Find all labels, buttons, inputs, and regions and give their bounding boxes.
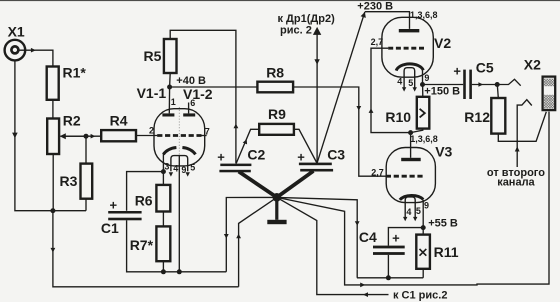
wire R12 bottom to X2 sleeve bbox=[498, 112, 546, 142]
svg-text:канала: канала bbox=[497, 177, 535, 189]
svg-text:R12: R12 bbox=[464, 109, 490, 125]
wire wiper node to R4 bbox=[61, 135, 102, 137]
svg-text:+150 В: +150 В bbox=[424, 85, 460, 97]
resistor R1 bbox=[47, 67, 59, 100]
wire cathode node to C1 bbox=[127, 172, 164, 211]
tube V1-1 anode plate pin 1 bbox=[162, 113, 174, 116]
wire output node to R12 bbox=[497, 85, 498, 99]
junction node V1 cathode bbox=[161, 169, 166, 174]
svg-text:1,3,6,8: 1,3,6,8 bbox=[410, 10, 438, 20]
svg-text:5: 5 bbox=[416, 206, 421, 216]
svg-text:2,7: 2,7 bbox=[371, 37, 384, 47]
svg-text:X2: X2 bbox=[524, 57, 541, 73]
wire output node to X2 tip contact bbox=[497, 79, 521, 85]
resistor R7 bbox=[156, 226, 170, 261]
svg-text:4: 4 bbox=[173, 164, 178, 174]
wire R2 bottom to ground bus bbox=[52, 154, 54, 211]
jack X2 hatched tip segment bbox=[544, 79, 554, 87]
tube V3 envelope bbox=[386, 148, 435, 203]
junction node X1 shield / R2 bus bbox=[50, 208, 55, 213]
capacitor C1 plates bbox=[108, 211, 141, 214]
jack X2 hatched sleeve segment bbox=[544, 102, 554, 109]
svg-text:C1: C1 bbox=[101, 220, 119, 236]
wire V2 grid to V3 anode node bbox=[371, 48, 411, 132]
wire R7 bottom to gnd bus bbox=[162, 261, 164, 272]
wire R5 bottom to +40V node bbox=[169, 73, 172, 87]
junction node +40V bbox=[167, 85, 172, 90]
tube V2 heater bbox=[404, 68, 415, 89]
tube V3 cathode arc bbox=[400, 195, 424, 199]
svg-text:+: + bbox=[297, 149, 305, 164]
tube V2 envelope bbox=[382, 17, 433, 77]
tube V1 heater bbox=[171, 156, 188, 172]
svg-text:R1*: R1* bbox=[63, 65, 87, 81]
wire star node to X2 sleeve bus bbox=[277, 112, 549, 285]
wire C3 top to +230V rail bbox=[317, 12, 365, 164]
svg-text:6: 6 bbox=[190, 98, 195, 108]
resistor R11 bbox=[416, 235, 430, 269]
svg-text:C3: C3 bbox=[327, 146, 345, 162]
svg-text:9: 9 bbox=[424, 200, 429, 210]
wire from second channel to X2 ring contact bbox=[517, 100, 532, 167]
tube V1 envelope bbox=[154, 109, 205, 166]
wire R8 to V3 grid bbox=[293, 87, 386, 176]
junction node +55V bbox=[421, 225, 426, 230]
thick lead C3 to star node bbox=[277, 171, 314, 197]
wire +230V rail to V2 anode bbox=[365, 12, 410, 29]
wire R6 to R7 bbox=[162, 212, 164, 227]
connector X1 inner pin bbox=[11, 46, 18, 53]
V3 heater arrow pin 4 bbox=[403, 217, 407, 221]
resistor R6 bbox=[156, 185, 170, 212]
wire V2 cathode pin 9 to +150V node bbox=[422, 70, 424, 85]
wire +150V node to C5 bbox=[423, 84, 464, 86]
tube V3 heater bbox=[405, 197, 415, 218]
svg-text:R9: R9 bbox=[268, 106, 286, 122]
junction node R7 gnd bbox=[161, 269, 166, 274]
tube V1 cathode left arc bbox=[163, 148, 176, 155]
wire R11 bottom to output gnd bus bbox=[422, 269, 424, 278]
wire X1 pin to R1 top bbox=[18, 50, 53, 66]
wire V1 heater centre tap pin 9 bbox=[178, 156, 180, 272]
svg-text:1,3,6,8: 1,3,6,8 bbox=[410, 134, 438, 144]
wire V3 anode node to plate bbox=[410, 133, 412, 158]
svg-text:+: + bbox=[217, 149, 225, 164]
wire R2 wiper node down to R3 bbox=[85, 136, 87, 163]
svg-text:R7*: R7* bbox=[130, 237, 154, 253]
V2 heater arrow pin 4 bbox=[402, 87, 406, 91]
direction arrow to choke Dr1 (up) bbox=[313, 27, 321, 35]
V3 heater arrow pin 5 bbox=[413, 217, 417, 221]
direction arrow star to C4 bus drop bbox=[355, 221, 360, 226]
direction arrow R8 drop to V3 grid bbox=[356, 106, 361, 111]
R10 power mark V (5W) bbox=[420, 109, 425, 118]
junction node R2 wiper bbox=[84, 134, 89, 139]
svg-text:R6: R6 bbox=[135, 192, 153, 208]
svg-text:1: 1 bbox=[171, 97, 176, 107]
tube V1 grid (dashed) bbox=[157, 134, 201, 137]
resistor R2 (potentiometer body) bbox=[47, 119, 59, 155]
resistor R3 bbox=[81, 164, 93, 199]
wire +150V node to R10 bbox=[422, 85, 424, 97]
svg-text:2: 2 bbox=[149, 126, 154, 136]
svg-text:R11: R11 bbox=[434, 244, 459, 260]
wire V1 cathode pin 3 to node bbox=[162, 154, 164, 172]
svg-text:R10: R10 bbox=[385, 109, 411, 125]
junction node output bbox=[495, 82, 500, 87]
svg-text:9: 9 bbox=[424, 73, 429, 83]
wire R9 right to C3 top bbox=[294, 129, 317, 163]
direction arrow to C1 fig.2 (left) bbox=[363, 292, 368, 297]
wire R4 to V1 grid pin 2 bbox=[136, 135, 157, 137]
direction arrow on X1 wire bbox=[31, 48, 36, 53]
chassis ground symbol bbox=[275, 197, 278, 220]
tube V3 grid (dashed) bbox=[386, 175, 425, 178]
wire V3 cathode pin 9 to +55V node bbox=[422, 200, 424, 228]
junction node C4 gnd bbox=[386, 275, 391, 280]
svg-text:5: 5 bbox=[190, 162, 195, 172]
wire output gnd bus bbox=[357, 277, 423, 279]
V1 heater arrow pin 5 bbox=[186, 172, 190, 176]
wire +40V node to V1-1 anode bbox=[168, 87, 170, 113]
direction arrow after C5 bbox=[478, 82, 483, 87]
wire C1 bottom to gnd bus bbox=[127, 220, 227, 271]
wire V1-2 anode stub pin 6 bbox=[188, 103, 190, 114]
tube V3 anode plate bbox=[401, 158, 421, 161]
wire C5 to output node bbox=[472, 84, 497, 86]
junction node +150V bbox=[420, 82, 425, 87]
resistor R10 bbox=[417, 97, 430, 129]
capacitor C5 plates bbox=[463, 70, 466, 99]
resistor R12 bbox=[491, 98, 505, 134]
direction arrow X1 shield drop bbox=[12, 133, 18, 139]
svg-text:+230 В: +230 В bbox=[357, 1, 393, 13]
svg-text:+: + bbox=[392, 230, 400, 245]
wire R1 to R2 bbox=[52, 100, 54, 119]
V2 heater arrow pin 5 bbox=[413, 87, 417, 91]
resistor R8 bbox=[257, 82, 293, 93]
tube V1 cathode right arc bbox=[182, 148, 195, 155]
svg-text:4: 4 bbox=[397, 77, 402, 87]
direction arrow bottom bus riser bbox=[236, 234, 241, 239]
wire C3 top to choke Dr1 arrow bbox=[316, 30, 318, 163]
junction node pin9 gnd bbox=[177, 269, 182, 274]
svg-text:рис. 2: рис. 2 bbox=[280, 25, 312, 37]
svg-text:R8: R8 bbox=[266, 64, 284, 80]
svg-text:C4: C4 bbox=[359, 229, 377, 245]
wire V1 grid stub pin 7 bbox=[202, 135, 207, 137]
wire bottom bus riser to star node bbox=[239, 197, 277, 286]
direction arrow input gnd drop bbox=[51, 248, 56, 253]
top edge line bbox=[0, 0, 560, 1]
R11 power mark X (10W) bbox=[420, 249, 427, 256]
direction arrow C3 to +230V diagonal bbox=[361, 12, 366, 18]
svg-text:R3: R3 bbox=[60, 173, 78, 189]
direction arrow on choke line (down) bbox=[314, 59, 319, 65]
direction arrow V2 grid riser bbox=[369, 108, 374, 113]
V1 heater arrow pin 4 bbox=[169, 172, 173, 176]
svg-text:+: + bbox=[453, 64, 461, 79]
wire ground bus down to bottom bus bbox=[53, 211, 239, 287]
thick lead C2 to star node bbox=[239, 172, 277, 198]
wire C2 top to R9 left bbox=[236, 129, 259, 163]
wire star node to C1 fig.2 bbox=[277, 197, 389, 294]
wire C4 bottom to output gnd bus bbox=[387, 255, 389, 278]
tube V1 axis dotted line bbox=[178, 107, 180, 155]
capacitor C3 plates bbox=[299, 163, 332, 166]
direction arrow star left drop bbox=[224, 234, 229, 239]
svg-text:C2: C2 bbox=[247, 147, 265, 163]
connector X1 outer circle bbox=[5, 40, 26, 61]
wire cathode node to R6 bbox=[162, 172, 164, 185]
capacitor C2 plates bbox=[220, 164, 251, 167]
direction arrow after wiper node bbox=[91, 134, 96, 139]
capacitor C4 plates bbox=[373, 246, 405, 249]
svg-text:V1-2: V1-2 bbox=[183, 86, 213, 102]
svg-text:к С1 рис.2: к С1 рис.2 bbox=[393, 289, 447, 301]
junction node V3 anode bbox=[408, 130, 413, 135]
direction arrow C2 riser bbox=[234, 124, 239, 129]
svg-text:к Др1(Др2): к Др1(Др2) bbox=[278, 13, 336, 25]
wire +55V node to C4 bbox=[388, 228, 423, 246]
svg-text:3: 3 bbox=[164, 162, 169, 172]
wire gnd bus riser to star node bbox=[226, 197, 276, 271]
tube V1-2 anode plate pin 6 bbox=[183, 113, 195, 116]
direction arrow from second channel (up) bbox=[515, 146, 520, 151]
svg-text:+40 В: +40 В bbox=[176, 75, 206, 87]
jack X2 hatched ring segment bbox=[544, 95, 554, 102]
resistor R9 bbox=[259, 124, 294, 135]
star ground node bbox=[273, 193, 282, 202]
direction arrow X2 sleeve bus bbox=[360, 283, 365, 288]
wire star node to output gnd bus riser bbox=[277, 197, 357, 277]
svg-text:V3: V3 bbox=[435, 143, 452, 159]
svg-text:7: 7 bbox=[205, 127, 210, 137]
direction arrow C2 to R9 diagonal bbox=[243, 139, 247, 144]
svg-text:5: 5 bbox=[408, 78, 413, 88]
svg-text:4: 4 bbox=[406, 207, 411, 217]
svg-text:V1-1: V1-1 bbox=[137, 85, 167, 101]
svg-text:R2: R2 bbox=[63, 112, 81, 128]
wire R10 bottom to V3 anode node bbox=[411, 129, 423, 133]
tube V2 cathode arc bbox=[396, 64, 423, 71]
wire X1 shield down to ground bus bbox=[15, 60, 86, 211]
resistor R4 bbox=[101, 130, 136, 141]
svg-text:+55 В: +55 В bbox=[428, 218, 458, 230]
svg-text:V2: V2 bbox=[434, 35, 451, 51]
wire +55V node to R11 bbox=[422, 228, 424, 235]
tube V2 grid (dashed) bbox=[388, 47, 425, 50]
svg-text:X1: X1 bbox=[8, 24, 25, 40]
svg-text:2,7: 2,7 bbox=[371, 167, 384, 177]
wire R5 top to C2 top bbox=[170, 30, 236, 163]
svg-text:9: 9 bbox=[181, 165, 186, 175]
svg-text:R5: R5 bbox=[144, 48, 162, 64]
svg-text:R4: R4 bbox=[110, 113, 128, 129]
wire +40V node to R8 bbox=[170, 86, 258, 88]
tube V2 anode plate bbox=[399, 29, 420, 32]
jack X2 body bbox=[543, 77, 556, 111]
svg-text:C5: C5 bbox=[476, 59, 494, 75]
R2 wiper arrow bbox=[64, 135, 86, 137]
wire R3 bottom bbox=[85, 199, 87, 211]
svg-text:+: + bbox=[110, 198, 118, 213]
resistor R5 bbox=[164, 39, 177, 73]
